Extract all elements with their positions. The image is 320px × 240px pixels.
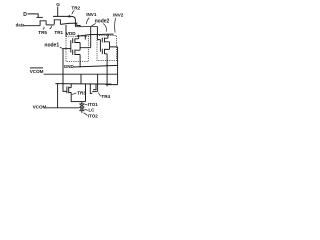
leader LC	[84, 108, 87, 111]
svg-text:TR1: TR1	[54, 30, 63, 35]
capacitor mid electrode	[79, 106, 84, 108]
wire node2 drop to INV2 input	[96, 27, 98, 40]
wire gate rail	[53, 15, 72, 17]
svg-text:INV1: INV1	[86, 12, 97, 17]
label TR1	[54, 30, 63, 35]
wire ITO1 node line	[71, 101, 86, 103]
label LC	[88, 107, 95, 112]
leader TR2	[72, 10, 75, 14]
svg-text:D: D	[23, 12, 27, 18]
label ITO2	[88, 113, 98, 118]
svg-text:data: data	[16, 22, 25, 27]
svg-text:TR5: TR5	[38, 30, 47, 35]
wire data line	[24, 25, 40, 27]
leader node2 left	[91, 23, 95, 26]
leader ITO2	[84, 113, 88, 116]
svg-text:INV2: INV2	[113, 13, 123, 18]
liquid crystal LC upper	[80, 104, 84, 106]
liquid crystal LC lower	[80, 108, 84, 110]
wire INV1 nmos to GND	[79, 55, 81, 67]
label VCOM bar	[30, 69, 44, 74]
svg-text:GND: GND	[64, 64, 75, 69]
leader TR1	[50, 26, 52, 29]
transistor INV2 pmos	[102, 38, 109, 43]
svg-text:VDD: VDD	[66, 31, 76, 36]
leader TR5	[43, 27, 44, 30]
leader node1	[60, 47, 63, 49]
wire INV2 output vertical	[117, 47, 119, 85]
label TR4	[101, 94, 110, 99]
wire INV1 output connector	[80, 43, 91, 51]
transistor TR4 gate bar	[93, 89, 97, 91]
svg-text:ITO2: ITO2	[88, 113, 98, 118]
wire TR1 drain step	[60, 23, 80, 27]
wire VDD drop INV2	[107, 34, 109, 38]
label node2	[95, 19, 110, 25]
transistor INV2 nmos	[102, 49, 109, 54]
wire rail3	[55, 84, 117, 85]
label INV1	[86, 12, 97, 17]
label TR2	[71, 5, 80, 10]
wire TR5 to TR1	[46, 24, 54, 26]
leader node2 right	[103, 24, 107, 32]
transistor TR5 channel	[40, 21, 46, 26]
transistor TR1 channel	[54, 20, 60, 25]
wire node2 riser to INV1 output	[90, 27, 92, 48]
wire VCOM vertical	[57, 84, 59, 108]
wire VDD rail	[77, 34, 114, 36]
label TR5	[38, 30, 47, 35]
svg-text:node1: node1	[44, 43, 59, 49]
svg-text:LC: LC	[88, 107, 95, 112]
wire GND rail	[73, 65, 117, 67]
svg-text:VCOM: VCOM	[30, 69, 44, 74]
wire node1 vertical	[63, 49, 66, 92]
leader TR4	[98, 93, 101, 97]
leader INV1	[86, 18, 89, 24]
label D	[23, 12, 27, 18]
transistor TR3 gate bar	[66, 87, 68, 94]
wire LC tick	[81, 102, 83, 104]
wire TR3 source down	[70, 93, 72, 102]
wire INV1 gate vertical	[70, 40, 72, 52]
leader ITO1	[85, 104, 88, 105]
transistor TR5 gate bar	[36, 16, 42, 18]
label data	[16, 22, 25, 27]
label node1	[44, 43, 59, 49]
wire node2 feedback line	[75, 26, 97, 28]
wire INV1 pmos source riser	[78, 35, 80, 39]
wire ITO1 riser	[85, 84, 87, 102]
capacitor ITO1 electrode	[79, 103, 84, 105]
capacitor ITO2 electrode	[79, 111, 84, 113]
label VDD	[66, 31, 76, 36]
label G	[56, 2, 60, 8]
wire TR1 drain drop to INV1 corner	[65, 25, 67, 36]
wire D line	[28, 14, 39, 17]
svg-text:TR4: TR4	[101, 94, 110, 99]
transistor INV1 pmos	[73, 38, 80, 43]
transistor TR2 channel curve	[72, 16, 75, 26]
label TR3	[77, 90, 86, 95]
transistor INV1 nmos	[73, 50, 80, 55]
svg-text:TR2: TR2	[71, 5, 80, 10]
wire G vertical	[57, 7, 59, 17]
label VCOM bottom	[33, 104, 47, 109]
svg-text:node2: node2	[95, 19, 110, 25]
wire TR4 gate riser	[95, 84, 97, 90]
leader TR3	[72, 93, 77, 95]
wire TR4 right leg	[97, 74, 99, 91]
svg-text:G: G	[56, 2, 60, 8]
leader INV2	[114, 18, 117, 33]
svg-text:TR3: TR3	[77, 90, 86, 95]
transistor TR2 gate triangle	[68, 15, 72, 18]
wire TR4 left leg	[90, 84, 92, 93]
wire VCOM bottom	[46, 107, 79, 109]
wire VCOM bar rail	[44, 73, 118, 75]
inverter INV1 box	[66, 36, 88, 61]
label INV2	[113, 13, 124, 18]
wire INV2 gate vertical	[97, 40, 100, 52]
wire INV2 output connector	[110, 42, 118, 50]
label GND	[64, 64, 75, 69]
wire VDD drop INV1	[84, 35, 86, 39]
wire node1 input	[63, 48, 71, 50]
transistor TR3 channel	[69, 87, 72, 94]
transistor TR4 channel	[92, 91, 97, 93]
wire INV2 nmos to GND	[106, 54, 108, 87]
svg-text:VCOM: VCOM	[33, 104, 47, 109]
wire TR3 drain riser	[70, 84, 72, 88]
label ITO1	[88, 102, 98, 107]
wire x81 link	[80, 74, 82, 84]
inverter INV2 box	[97, 35, 116, 60]
